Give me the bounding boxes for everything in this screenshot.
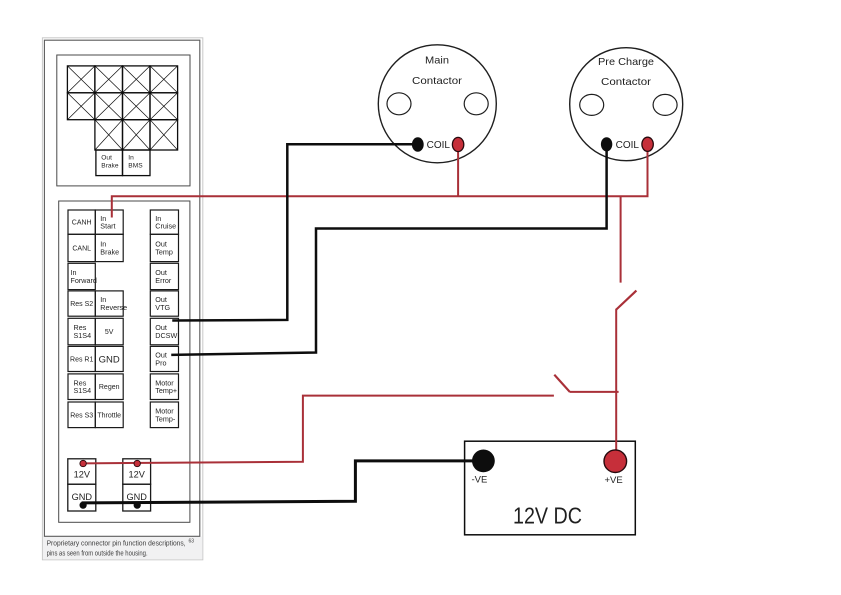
pin box Out VTG [150,291,178,316]
svg-text:DCSW: DCSW [155,331,177,340]
wire: black main contactor coil- to Out DCSW [174,144,418,320]
pin box 5V [95,318,123,345]
pin box Res S1S4 (a) [68,318,95,345]
pin box Res S1S4 (b) [68,374,95,400]
grid X cell row1 col3 [123,66,151,93]
grid X cell row1 col2 [95,66,123,93]
svg-text:GND: GND [126,492,147,502]
wire: red from 12V pins to lower switch [83,396,553,464]
switch blade (lower, open) [554,375,569,392]
caption background bar [43,537,202,560]
svg-text:+VE: +VE [604,475,622,486]
svg-text:Cruise: Cruise [155,222,176,231]
pin box Res S3 [68,402,95,428]
pre charge terminal hole left [580,94,604,115]
svg-text:12V: 12V [74,470,91,480]
pin box GND right [123,484,151,511]
svg-text:Res S3: Res S3 [70,412,93,419]
svg-text:pins as seen from outside the: pins as seen from outside the housing. [47,551,148,558]
svg-text:63: 63 [189,539,195,545]
pin box In Reverse [95,291,123,316]
pre charge coil+ terminal (red) [642,137,653,151]
pin box Res S2 [68,291,95,316]
pre charge terminal hole right [653,94,677,115]
wire: red drop main contactor coil+ to rail [457,150,459,196]
pin box 12V right [123,459,151,484]
pin box CANH [68,210,95,234]
svg-text:5V: 5V [105,329,114,336]
svg-text:12V DC: 12V DC [513,503,582,529]
svg-text:Temp+: Temp+ [155,386,177,395]
pin box CANL [68,234,95,261]
svg-text:Error: Error [155,276,172,285]
grid cell Out Brake [96,150,123,176]
svg-text:In: In [128,155,134,162]
wire: red from In Start pin to supply rail [112,196,648,216]
svg-text:Pro: Pro [155,358,166,367]
grid X cell row2 col4 [150,93,178,120]
svg-text:GND: GND [72,492,93,502]
svg-text:Temp-: Temp- [155,414,176,423]
12V pin dot left (red) [80,460,86,466]
grid X cell row2 col2 [95,93,123,120]
svg-text:Forward: Forward [71,276,97,285]
pin box In Cruise [150,210,178,234]
pin box Out Pro [150,346,178,371]
GND pin dot right (black) [134,502,141,509]
svg-text:-VE: -VE [472,475,488,486]
svg-text:Brake: Brake [100,248,119,257]
svg-text:Res S2: Res S2 [70,301,93,308]
main contactor coil- terminal (black) [412,137,424,151]
svg-text:Contactor: Contactor [412,76,463,87]
wire: black pre charge coil- to Out Pro [173,144,607,354]
pin box Res R1 [68,346,95,371]
grid X cell row2 col1 [67,93,95,120]
pin box Out Temp [150,234,178,261]
wire: black from GND pins to battery -VE [83,461,483,503]
switch blade (upper, open) [616,291,636,310]
svg-text:Brake: Brake [101,162,119,169]
contactor: Pre Charge (body circle) [570,48,683,161]
svg-text:CANL: CANL [72,246,91,253]
pin box 12V left [68,459,96,484]
pin box Throttle [95,402,123,428]
pin box Motor Temp+ [150,374,178,400]
connector panel dark border [44,40,199,536]
pre charge coil- terminal (black) [601,137,612,151]
svg-text:Main: Main [425,55,449,66]
wire: red down to battery +VE [615,309,617,452]
grid cell In BMS [123,150,151,176]
12V pin dot right (red) [134,460,140,466]
svg-text:S1S4: S1S4 [74,386,92,395]
battery +VE terminal [604,450,627,473]
svg-text:Start: Start [100,222,115,231]
battery 12V DC box [465,441,636,535]
main contactor coil+ terminal (red) [452,137,463,151]
grid X cell row3 col3 [123,120,151,150]
contactor: Main (body circle) [378,45,496,163]
svg-text:S1S4: S1S4 [74,331,92,340]
svg-text:Res R1: Res R1 [70,357,93,364]
main contactor terminal hole left [387,93,411,115]
pin box Regen [95,374,123,400]
svg-text:Proprietary connector pin func: Proprietary connector pin function descr… [47,540,186,547]
svg-text:Out: Out [101,155,112,162]
pin box Out Error [150,263,178,289]
grid X cell row3 col2 [95,120,123,150]
svg-text:CANH: CANH [72,220,92,227]
inner box: pin grid section [57,55,190,186]
grid X cell row1 col1 [67,66,95,93]
battery -VE terminal [472,450,495,473]
grid X cell row1 col4 [150,66,178,93]
svg-text:COIL: COIL [616,140,640,151]
svg-text:GND: GND [99,354,120,365]
svg-text:12V: 12V [129,470,146,480]
pin box In Start [95,210,123,234]
connector panel outer light frame [42,38,202,560]
wire: red drop pre charge coil+ to rail [647,150,649,196]
svg-text:VTG: VTG [155,303,170,312]
pin box GND pin [95,346,123,371]
svg-text:Regen: Regen [99,384,120,391]
grid X cell row2 col3 [123,93,151,120]
pin box Motor Temp- [150,402,178,428]
pin box Out DCSW [150,318,178,345]
pin box GND left [68,484,96,511]
svg-text:COIL: COIL [427,140,451,151]
svg-text:BMS: BMS [128,162,143,169]
svg-text:Temp: Temp [155,248,173,257]
main contactor terminal hole right [464,93,488,115]
svg-text:Pre Charge: Pre Charge [598,57,654,68]
svg-text:Throttle: Throttle [97,412,121,419]
pin box In Forward [68,263,95,289]
pin box In Brake [95,234,123,261]
inner box: pin function section [59,201,190,522]
wire: lower switch to +VE feed junction [570,391,619,393]
svg-text:Reverse: Reverse [100,303,127,312]
grid X cell row3 col4 [150,120,178,150]
GND pin dot left (black) [80,502,87,509]
svg-text:Contactor: Contactor [601,77,652,88]
wire: red upper switch top lead [620,196,622,283]
